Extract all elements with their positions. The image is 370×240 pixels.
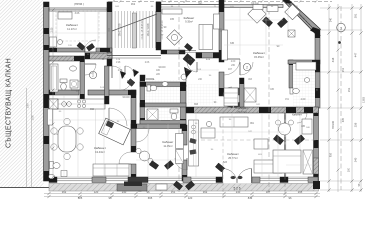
closet wall bbox=[240, 78, 245, 107]
wall bath wall V11 bbox=[80, 56, 85, 100]
wall right outer upper V7 bbox=[315, 30, 320, 72]
door bath mid bbox=[223, 87, 232, 96]
svg-text:90/200: 90/200 bbox=[122, 97, 130, 99]
top wall left window bbox=[49, 8, 107, 11]
corridor wall piece bbox=[105, 66, 110, 104]
wall stair left V1 bbox=[107, 2, 112, 66]
right bath tub bbox=[296, 62, 316, 70]
wc shower bbox=[147, 109, 158, 120]
eo circle bbox=[89, 71, 96, 78]
vent arrow bbox=[133, 69, 139, 77]
closet shelves bbox=[224, 88, 238, 106]
svg-text:5 2 6: 5 2 6 bbox=[233, 187, 240, 191]
svg-text:2.00: 2.00 bbox=[231, 61, 236, 63]
bedroom2 table bbox=[140, 151, 150, 161]
extension lines bbox=[49, 8, 313, 177]
bottom wall pier bbox=[252, 177, 260, 183]
svg-text:345: 345 bbox=[230, 42, 235, 45]
svg-text:2.06: 2.06 bbox=[145, 62, 150, 64]
room2 shelf bbox=[162, 9, 182, 14]
stair break line bbox=[112, 14, 157, 31]
entrance big arc bbox=[240, 62, 253, 75]
bed dark corner bbox=[106, 121, 114, 128]
room1 dark chairs bbox=[77, 42, 85, 50]
svg-text:(ПР.96 (: (ПР.96 ( bbox=[74, 2, 84, 6]
svg-text:151: 151 bbox=[347, 87, 351, 92]
svg-text:665: 665 bbox=[148, 196, 153, 200]
svg-text:Кабинет: Кабинет bbox=[94, 146, 106, 150]
svg-text:362: 362 bbox=[90, 108, 95, 111]
svg-text:9.35m²: 9.35m² bbox=[185, 21, 193, 24]
kitchen sofa bbox=[93, 164, 129, 176]
svg-text:1.06: 1.06 bbox=[31, 115, 35, 121]
room3 desk tall bbox=[199, 25, 213, 50]
kitchen fridge bbox=[49, 99, 58, 109]
svg-text:17 бр. 18.78/28.00: 17 бр. 18.78/28.00 bbox=[142, 20, 144, 40]
svg-text:362: 362 bbox=[131, 2, 136, 6]
door hall2 bbox=[112, 66, 124, 78]
svg-text:Кабинет: Кабинет bbox=[227, 152, 239, 156]
svg-text:340: 340 bbox=[330, 17, 333, 22]
hall dark mark bbox=[127, 79, 135, 87]
wall bath right V bbox=[289, 60, 293, 88]
axis dashed 2 bbox=[268, 2, 270, 192]
svg-text:11.17m²: 11.17m² bbox=[67, 27, 77, 31]
door room1 bbox=[84, 40, 96, 52]
svg-text:15.45m²: 15.45m² bbox=[254, 55, 264, 59]
toilet1 bbox=[60, 79, 67, 83]
svg-text:240: 240 bbox=[236, 190, 241, 194]
mid bath counter bbox=[228, 88, 242, 95]
wc toilet bbox=[147, 85, 151, 91]
wc sink bbox=[162, 82, 168, 87]
living desk bbox=[201, 128, 215, 138]
right bath toilet bbox=[290, 88, 293, 94]
bottom wall pier bbox=[308, 177, 318, 183]
living dark marks above band bbox=[226, 102, 233, 108]
right margin extra ticks bbox=[337, 7, 340, 172]
svg-text:256: 256 bbox=[354, 122, 358, 127]
office dark chair1 bbox=[262, 17, 272, 27]
door kitchen door bbox=[119, 152, 131, 164]
bottom right black corner bbox=[313, 181, 320, 189]
bedroom3 table bbox=[279, 123, 291, 135]
wall center block bottom bbox=[140, 120, 186, 125]
mid bath toilet bbox=[203, 88, 210, 91]
svg-text:362: 362 bbox=[62, 190, 67, 194]
kitchenette dark bits bbox=[190, 138, 197, 143]
toilet2 bbox=[50, 162, 54, 169]
dining chairs bbox=[51, 128, 57, 134]
svg-text:90/200: 90/200 bbox=[158, 67, 166, 69]
svg-text:523: 523 bbox=[223, 161, 228, 164]
wall right outer lower V6 bbox=[314, 108, 319, 181]
svg-text:17 бр. 18.78/28.00: 17 бр. 18.78/28.00 bbox=[162, 20, 164, 40]
svg-text:151: 151 bbox=[171, 190, 176, 194]
bathtub bbox=[50, 64, 58, 92]
svg-text:1383: 1383 bbox=[362, 97, 366, 103]
kitchen counter bbox=[49, 99, 105, 109]
door bath1 bbox=[71, 81, 80, 90]
wall H2 bbox=[49, 56, 80, 61]
bedroom3 dark chairs bbox=[273, 135, 283, 145]
svg-text:240: 240 bbox=[122, 190, 127, 194]
room1 desk bbox=[50, 37, 57, 47]
living sofa right bbox=[254, 160, 282, 173]
svg-text:Кабинет: Кабинет bbox=[184, 16, 195, 20]
mid bath tile bbox=[188, 84, 218, 105]
terrace hatch band bbox=[49, 184, 319, 192]
svg-text:Кабинет: Кабинет bbox=[163, 140, 175, 144]
axis dashed horizontal bbox=[188, 139, 316, 141]
door center marks bbox=[231, 176, 236, 179]
svg-text:25.77m²: 25.77m² bbox=[237, 110, 247, 114]
wall kitchen top b bbox=[88, 90, 136, 95]
wall V4 lower bbox=[219, 72, 224, 96]
door hall1 bbox=[85, 64, 96, 75]
stair rail bbox=[132, 13, 136, 48]
svg-text:120: 120 bbox=[94, 190, 99, 194]
dining table oval bbox=[58, 126, 76, 152]
bottom wall pier bbox=[49, 177, 57, 183]
office dark chair2 bbox=[277, 18, 287, 28]
svg-text:842: 842 bbox=[248, 196, 253, 200]
entrance arrow 3 bbox=[120, 71, 126, 79]
kitchen zone line bbox=[95, 100, 97, 177]
party wall strip bbox=[44, 2, 50, 181]
wall stair right V2 bbox=[156, 2, 161, 50]
svg-text:3.06: 3.06 bbox=[75, 12, 80, 15]
svg-text:435: 435 bbox=[342, 117, 345, 122]
terrace white box bbox=[156, 184, 167, 190]
vent circle bbox=[181, 74, 187, 80]
room2 rotated table bbox=[167, 30, 183, 46]
svg-text:1.98: 1.98 bbox=[116, 62, 121, 64]
kitchen stove bbox=[77, 100, 80, 103]
terrace dark block bbox=[117, 184, 147, 191]
room1 shelf bbox=[58, 12, 72, 19]
svg-text:Е.О: Е.О bbox=[127, 80, 131, 83]
wall H3 bbox=[85, 53, 112, 59]
room2 dark chair bbox=[184, 43, 192, 51]
office cabinet left bbox=[222, 30, 228, 60]
svg-text:340: 340 bbox=[354, 157, 358, 162]
svg-text:18x17.6/28: 18x17.6/28 bbox=[146, 23, 150, 36]
svg-text:96: 96 bbox=[147, 190, 150, 194]
terrace chair 1 bbox=[173, 181, 182, 190]
right wall crosshatch block bbox=[314, 158, 319, 174]
living kitchenette strip bbox=[189, 120, 199, 166]
bottom dimension lines bbox=[44, 193, 320, 195]
svg-text:100: 100 bbox=[348, 167, 351, 172]
svg-text:18x17.6/28: 18x17.6/28 bbox=[118, 23, 122, 36]
wall main mid band bbox=[186, 107, 319, 113]
right dimension lines bbox=[328, 4, 330, 192]
top wall right window bbox=[224, 5, 283, 8]
door wc2 bbox=[161, 111, 170, 120]
bedroom3 wardrobe bbox=[303, 150, 313, 174]
wall center block V13 bbox=[180, 85, 186, 125]
svg-text:165: 165 bbox=[170, 18, 175, 21]
svg-text:96: 96 bbox=[109, 196, 112, 200]
svg-text:25.77m²: 25.77m² bbox=[228, 156, 238, 160]
office top boxes bbox=[267, 6, 278, 12]
room1 dashed ceiling outline bbox=[56, 11, 99, 41]
right bath tile bbox=[293, 64, 315, 106]
kitchen sink bbox=[62, 102, 67, 107]
living couch right bbox=[254, 139, 268, 149]
left inner dim bbox=[52, 10, 54, 177]
thin wall bedroom divider bbox=[283, 112, 285, 180]
french double door bbox=[223, 169, 238, 184]
living sideboard bbox=[220, 117, 248, 127]
stair landing wall bbox=[107, 55, 161, 57]
bedroom2 door arc bbox=[136, 129, 149, 142]
door living door bbox=[175, 158, 187, 170]
wall V4 upper bbox=[219, 0, 224, 62]
svg-text:120: 120 bbox=[188, 196, 193, 200]
bottom wall window lines bbox=[49, 177, 319, 179]
svg-text:391: 391 bbox=[354, 13, 358, 18]
svg-text:78/100: 78/100 bbox=[331, 120, 335, 129]
svg-text:525: 525 bbox=[78, 196, 83, 200]
bedroom2 wardrobe bbox=[176, 150, 184, 164]
bottom wall pier bbox=[128, 177, 148, 183]
svg-text:438: 438 bbox=[331, 57, 335, 62]
rotated bed bbox=[99, 118, 131, 145]
bottom wall pier bbox=[92, 177, 106, 183]
neighbour boundary line bbox=[0, 187, 55, 189]
wall bedroom2 top bbox=[131, 124, 186, 129]
wall H1a bbox=[49, 48, 85, 52]
svg-text:916: 916 bbox=[330, 152, 333, 157]
svg-text:187: 187 bbox=[266, 190, 271, 194]
sink1 bbox=[70, 66, 77, 71]
bottom wall pier bbox=[216, 177, 224, 183]
svg-text:362: 362 bbox=[203, 190, 208, 194]
wall kitchen divider mid bbox=[131, 128, 136, 152]
wall bath right top bbox=[288, 60, 320, 64]
sink2 bbox=[49, 174, 55, 179]
washer bbox=[70, 80, 78, 88]
diagonal wall top-right bbox=[283, 0, 321, 34]
bedroom2 desk bbox=[176, 134, 184, 149]
bottom wall pier bbox=[280, 177, 288, 183]
bedroom3 desk bbox=[302, 119, 312, 134]
svg-text:2: 2 bbox=[246, 66, 248, 70]
top wall mid bbox=[161, 4, 224, 6]
office table2 diamond bbox=[285, 4, 301, 20]
room bottom wall thin bbox=[178, 50, 196, 52]
svg-text:363: 363 bbox=[194, 103, 199, 106]
svg-text:96: 96 bbox=[289, 196, 292, 200]
svg-text:Кабинет: Кабинет bbox=[253, 51, 265, 55]
right margin connectors bbox=[320, 7, 362, 9]
axis dashed lower bbox=[284, 107, 286, 197]
svg-text:Кабинет: Кабинет bbox=[292, 113, 303, 117]
wall living left lower bbox=[182, 160, 187, 181]
office table1 diamond bbox=[248, 5, 266, 23]
svg-text:2.00: 2.00 bbox=[301, 98, 306, 101]
wall H1b bbox=[96, 48, 112, 52]
wall center block V12 bbox=[140, 75, 145, 124]
top edge extra ticks bbox=[119, 0, 318, 3]
door bedroom3 door bbox=[297, 113, 307, 123]
entrance arrow bbox=[184, 67, 192, 78]
kitchen counter left bbox=[48, 109, 53, 125]
axis dashed x223 bbox=[222, 110, 224, 197]
property line top bbox=[108, 1, 332, 3]
svg-text:СЪЩЕСТВУВАЩ КАЛКАН: СЪЩЕСТВУВАЩ КАЛКАН bbox=[6, 58, 13, 148]
mid bath shower bbox=[244, 88, 256, 102]
door wc1 bbox=[146, 79, 154, 87]
wall right outer mid V7b bbox=[315, 72, 320, 108]
svg-text:151: 151 bbox=[342, 67, 345, 72]
bubble 2 bbox=[243, 63, 250, 70]
svg-text:240: 240 bbox=[198, 2, 203, 6]
svg-text:295: 295 bbox=[298, 190, 303, 194]
staircase treads bbox=[115, 11, 155, 48]
wall living left upper bbox=[182, 125, 187, 145]
wall kitchen divider upper bbox=[131, 90, 136, 128]
living dark chair low bbox=[215, 163, 224, 172]
svg-text:ЕО: ЕО bbox=[138, 191, 142, 193]
corridor lintel bbox=[196, 53, 219, 59]
neighbour building hatch bbox=[0, 0, 44, 188]
door topright bbox=[224, 59, 240, 75]
bottom wall pier bbox=[183, 177, 191, 183]
wc wall upper bbox=[140, 82, 186, 87]
dark mat vestibule bbox=[183, 54, 195, 66]
axis dashed 1 bbox=[178, 2, 180, 192]
terrace chair 2 bbox=[185, 181, 194, 190]
wc2 fixtures bbox=[170, 109, 178, 113]
kitchen door arc bbox=[109, 108, 127, 126]
box2 bbox=[61, 171, 67, 177]
office xbox bbox=[288, 30, 295, 37]
wall under stair bbox=[161, 50, 185, 54]
right bath sink bbox=[304, 78, 310, 83]
room1 chair bbox=[58, 40, 63, 45]
wc tile floor bbox=[145, 80, 180, 120]
svg-text:1.90: 1.90 bbox=[26, 103, 30, 109]
svg-text:Кабинет: Кабинет bbox=[66, 23, 78, 27]
door opening backing bbox=[223, 176, 252, 184]
door corr1 bbox=[187, 62, 197, 72]
svg-text:447: 447 bbox=[354, 52, 358, 57]
left thin boundary lines bbox=[26, 88, 28, 188]
hall extra arcs bbox=[125, 66, 134, 75]
wall kitchen top a bbox=[49, 90, 79, 95]
bedroom3 bed bbox=[273, 150, 301, 173]
axis dashed 3 with bubble bbox=[340, 6, 342, 190]
wc wall mid bbox=[140, 103, 186, 107]
bedroom2 dark chairs bbox=[149, 161, 158, 170]
wall kitchen divider low bbox=[131, 164, 136, 181]
svg-text:13.43m²: 13.43m² bbox=[95, 150, 105, 154]
